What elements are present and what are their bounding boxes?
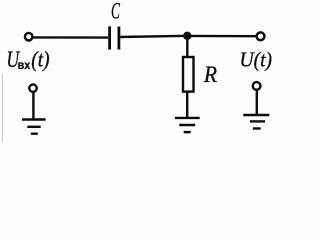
svg-text:R: R [203, 61, 217, 87]
svg-text:C: C [111, 0, 120, 25]
label C [111, 0, 120, 25]
input terminal (open circle) [25, 33, 33, 41]
wire capacitor to node [120, 36, 187, 37]
wire input terminal to capacitor [33, 36, 108, 39]
label Uвх(t) [6, 48, 49, 73]
input-side ground terminal (open circle) [29, 85, 36, 92]
scan artifact line left edge [2, 74, 4, 142]
ground (left) [22, 120, 46, 134]
ground (middle, under R) [175, 118, 200, 132]
wire resistor to ground [186, 92, 188, 118]
paper background [0, 0, 280, 142]
svg-text:U(t): U(t) [240, 49, 273, 72]
label U(t) [240, 49, 273, 72]
svg-text:вх: вх [18, 59, 31, 72]
node (junction dot) [183, 32, 191, 40]
ground (right) [243, 115, 269, 129]
wire node down to resistor [186, 36, 188, 57]
wire node to output terminal [187, 35, 256, 38]
wire input ground stem [32, 93, 34, 120]
label R [203, 61, 217, 87]
resistor R (rectangle) [183, 57, 194, 92]
output-side ground terminal (open circle) [253, 82, 261, 90]
wire output ground stem [256, 90, 258, 115]
capacitor C (two plates) [110, 26, 119, 49]
svg-text:(t): (t) [31, 48, 49, 71]
output terminal (open circle) [257, 32, 265, 40]
